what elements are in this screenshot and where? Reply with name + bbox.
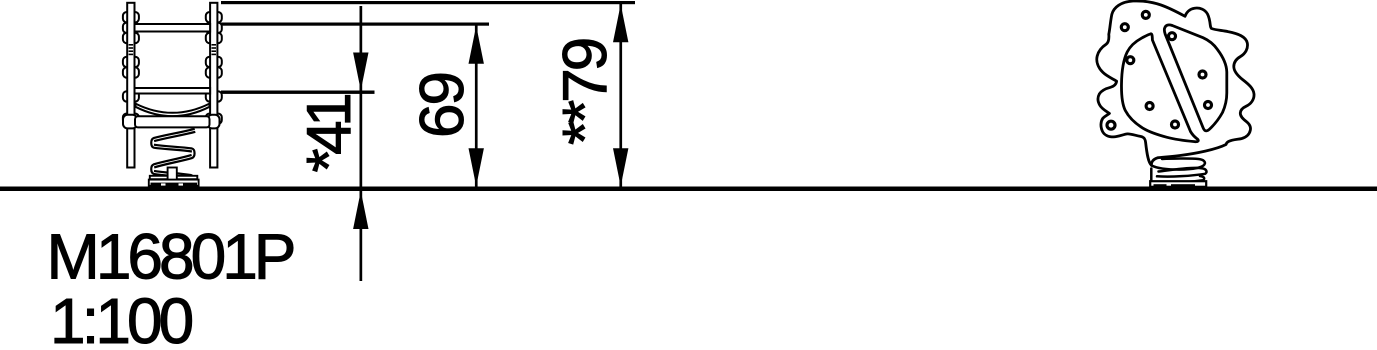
svg-text:*41: *41 xyxy=(295,95,364,173)
svg-text:M16801P: M16801P xyxy=(47,221,294,293)
svg-text:**79: **79 xyxy=(551,39,620,145)
svg-text:69: 69 xyxy=(408,73,477,138)
svg-text:1:100: 1:100 xyxy=(50,285,193,345)
